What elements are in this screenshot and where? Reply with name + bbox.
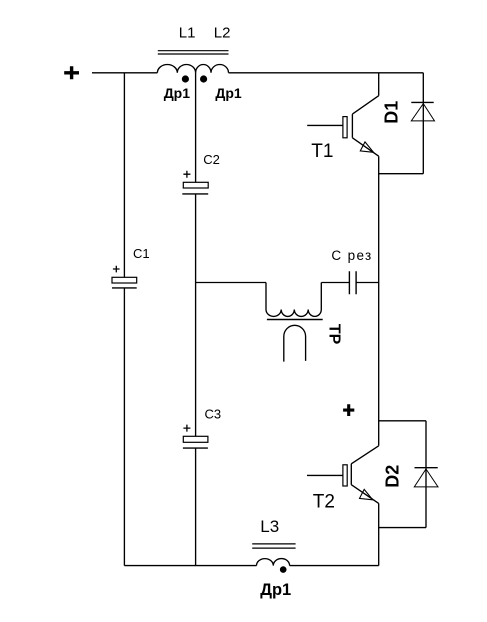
wire right rail T1 collector feed xyxy=(378,73,380,96)
capacitor C3 xyxy=(183,436,208,442)
svg-text:D1: D1 xyxy=(381,101,401,124)
core of choke L3 xyxy=(252,544,295,548)
wire left rail lower xyxy=(123,288,125,566)
diode D2 xyxy=(379,421,426,528)
core of coupled choke Dr1 xyxy=(158,51,229,54)
svg-text:T1: T1 xyxy=(311,141,333,162)
wire transformer to C rez xyxy=(321,282,349,284)
inductor L3 xyxy=(257,559,290,566)
capacitor C rez xyxy=(349,271,356,294)
svg-text:Др1: Др1 xyxy=(260,581,291,599)
svg-text:T2: T2 xyxy=(313,491,335,512)
wire bottom left xyxy=(124,565,256,567)
transformer TP secondary winding xyxy=(284,325,306,361)
svg-text:C1: C1 xyxy=(133,246,150,261)
svg-text:ТР: ТР xyxy=(325,324,342,345)
diode D1 xyxy=(422,73,424,174)
transistor T2 xyxy=(351,446,378,504)
capacitor C1 xyxy=(112,277,137,283)
inductor L2 xyxy=(196,65,229,73)
svg-text:С рез: С рез xyxy=(331,248,372,263)
inductor L1 xyxy=(157,65,195,73)
transformer TP core xyxy=(267,319,323,321)
svg-text:D2: D2 xyxy=(383,465,403,488)
wire top left xyxy=(92,72,157,74)
wire middle to transformer xyxy=(196,282,266,284)
wire center tap xyxy=(195,73,197,183)
transistor T1 xyxy=(352,96,378,157)
svg-text:L2: L2 xyxy=(214,24,231,41)
svg-text:L3: L3 xyxy=(260,517,279,536)
wire C rez to right rail xyxy=(356,282,379,284)
transformer TP primary winding xyxy=(266,283,321,317)
plus label near T2 xyxy=(343,404,354,416)
wire T2 emitter to bottom xyxy=(378,503,380,565)
wire center rail middle xyxy=(195,194,197,436)
polarity dot L3 xyxy=(280,566,287,573)
polarity dot L1 xyxy=(182,75,189,82)
wire left rail upper xyxy=(123,73,125,277)
capacitor C2 xyxy=(183,182,208,188)
plus input terminal xyxy=(64,66,79,79)
wire top right xyxy=(229,72,424,74)
svg-text:C3: C3 xyxy=(205,406,222,421)
svg-text:Др1: Др1 xyxy=(164,85,191,101)
svg-text:L1: L1 xyxy=(179,24,196,41)
svg-text:Др1: Др1 xyxy=(215,85,242,101)
wire center rail lower xyxy=(195,448,197,565)
wire bottom right xyxy=(290,565,379,567)
svg-text:C2: C2 xyxy=(203,152,220,167)
wire right rail middle xyxy=(378,156,380,446)
polarity dot L2 xyxy=(200,75,207,82)
